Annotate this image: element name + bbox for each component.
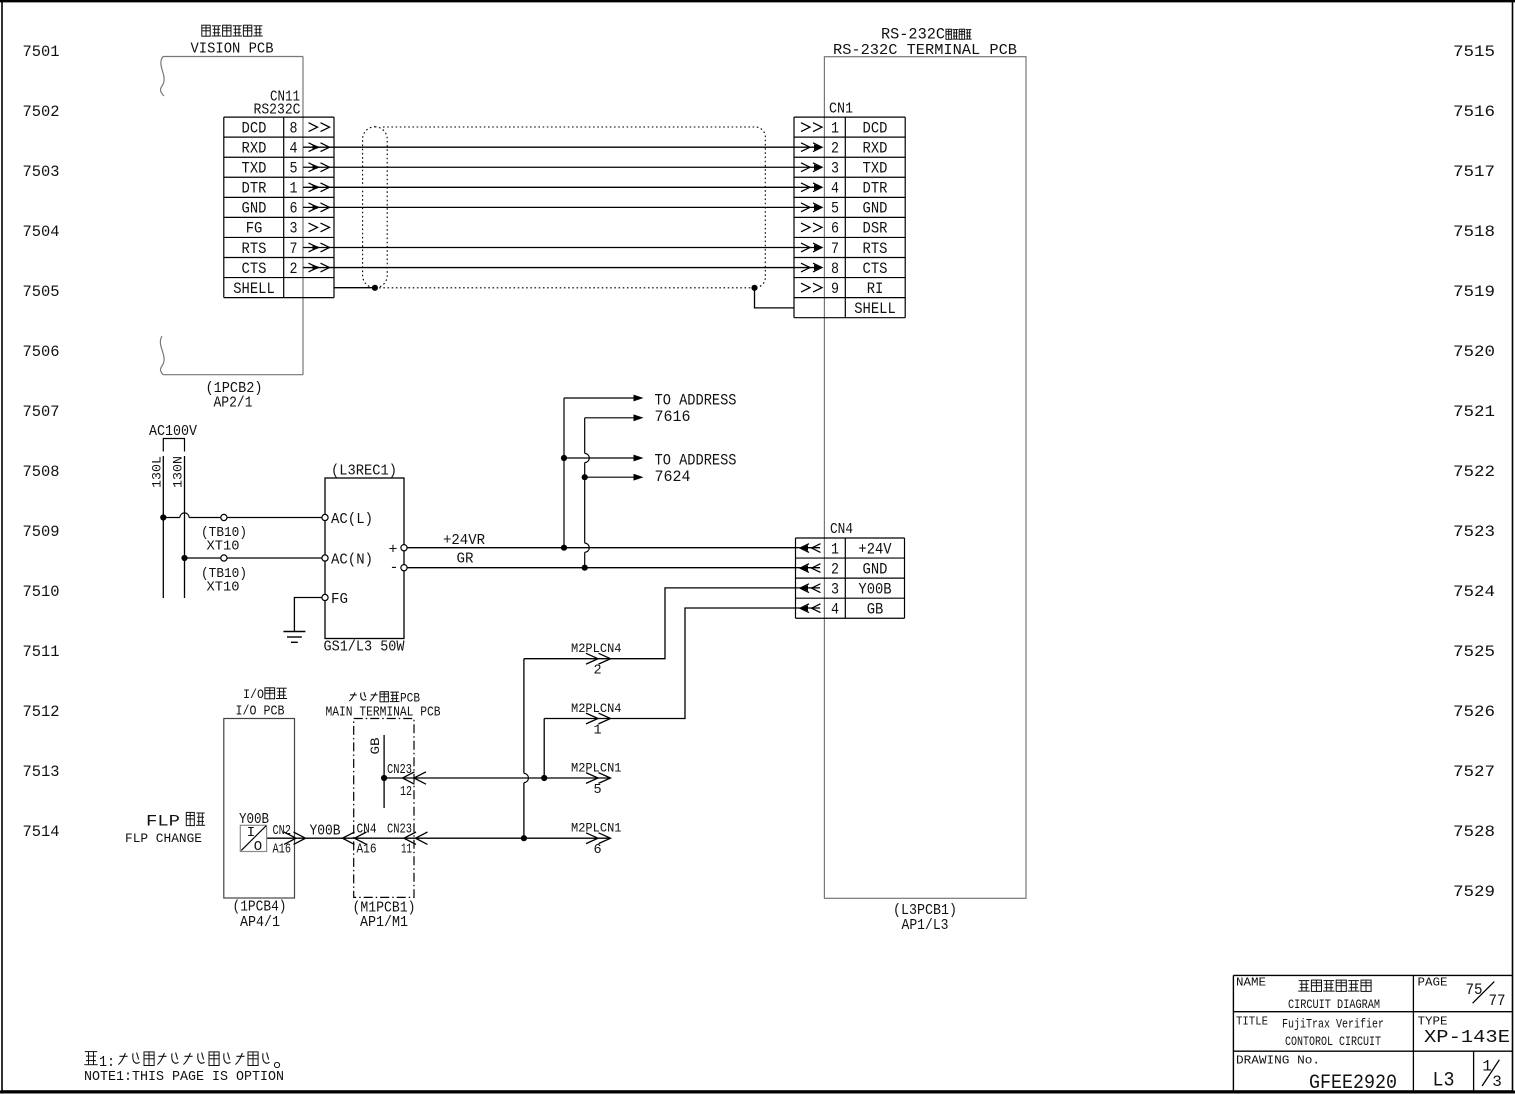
svg-text:M2PLCN1: M2PLCN1 — [571, 822, 622, 836]
svg-text:CIRCUIT DIAGRAM: CIRCUIT DIAGRAM — [1288, 997, 1380, 1012]
svg-text:RXD: RXD — [863, 139, 888, 157]
wire CN4 pin3 Y00B down-left — [524, 588, 820, 659]
svg-text:8: 8 — [290, 119, 298, 137]
wire CN4 pin4 GB down-left — [544, 608, 820, 719]
chevrons CN4-A16 entry — [343, 832, 367, 844]
label TO ADDRESS 7624 — [655, 452, 737, 487]
svg-text:7529: 7529 — [1453, 883, 1495, 901]
svg-text:AP4/1: AP4/1 — [240, 914, 280, 931]
svg-text:RTS: RTS — [863, 240, 888, 258]
svg-text:DCD: DCD — [863, 119, 888, 137]
svg-text:2: 2 — [831, 560, 839, 578]
svg-text:130N: 130N — [171, 456, 186, 488]
svg-text:7624: 7624 — [655, 468, 691, 486]
svg-text:GND: GND — [863, 560, 888, 578]
junction GB stub to CN23-12 wire — [381, 775, 387, 781]
connector CN4 table grid — [796, 538, 905, 618]
board VISION PCB (1PCB2) outline — [163, 57, 303, 375]
svg-text:NOTE1:THIS PAGE IS OPTION: NOTE1:THIS PAGE IS OPTION — [84, 1069, 284, 1085]
wire 130L vertical — [162, 456, 164, 598]
junction shield right — [751, 285, 757, 291]
svg-text:PCB: PCB — [400, 691, 420, 706]
wire 130N vertical — [184, 456, 186, 598]
svg-text:AP1/L3: AP1/L3 — [902, 917, 949, 934]
label FLP CHANGE (Japanese+English) — [125, 812, 205, 846]
svg-text:7523: 7523 — [1453, 523, 1495, 541]
svg-text:TXD: TXD — [242, 160, 267, 178]
svg-text:GB: GB — [368, 737, 383, 754]
svg-text:Y00B: Y00B — [858, 580, 891, 598]
connector CN11 RS232C label — [254, 89, 301, 119]
svg-text:XT10: XT10 — [207, 580, 240, 596]
junction GR tap at 7624 branch — [582, 474, 588, 480]
svg-text:1: 1 — [290, 180, 298, 198]
svg-text:7507: 7507 — [23, 403, 60, 421]
svg-text:CN4: CN4 — [830, 521, 853, 538]
svg-text:A16: A16 — [357, 843, 377, 858]
svg-text:FG: FG — [246, 220, 263, 238]
board I/O PCB (1PCB4) outline — [224, 719, 295, 899]
label TO ADDRESS 7616 — [655, 392, 737, 427]
svg-text:DTR: DTR — [242, 180, 267, 198]
svg-text:3: 3 — [290, 220, 298, 238]
label CN4 A16 at MAIN left edge — [357, 823, 377, 858]
left margin address numbers 7501-7514 — [23, 43, 60, 841]
svg-text:AC(L): AC(L) — [331, 512, 373, 528]
svg-text:TITLE: TITLE — [1236, 1016, 1268, 1029]
svg-text:7515: 7515 — [1453, 43, 1495, 61]
svg-text:DSR: DSR — [863, 220, 888, 238]
svg-text:Y00B: Y00B — [310, 824, 341, 840]
svg-text:5: 5 — [593, 783, 601, 798]
wire GR tap vertical (x=584.7) with hops — [585, 418, 590, 568]
svg-text:11: 11 — [401, 843, 412, 858]
svg-text:7520: 7520 — [1453, 343, 1495, 361]
svg-text:CTS: CTS — [242, 260, 267, 278]
junction 130L to AC(L) — [160, 514, 166, 520]
cable shield boundary dotted lines — [375, 127, 765, 288]
svg-text:7: 7 — [290, 240, 298, 258]
svg-text:7516: 7516 — [1453, 103, 1495, 121]
svg-text:DCD: DCD — [242, 119, 267, 137]
wire GR from GS1 to CN4 pin2 — [407, 567, 820, 569]
title block TITLE cell — [1236, 1016, 1384, 1050]
svg-text:SHELL: SHELL — [854, 300, 896, 318]
svg-text:7519: 7519 — [1453, 283, 1495, 301]
wire vertical branch B (x=544.2) — [543, 719, 545, 779]
svg-text:AP2/1: AP2/1 — [214, 395, 253, 412]
connector CN11 table grid — [224, 117, 334, 298]
note1 Japanese text — [84, 1052, 279, 1071]
label CN23 11 at MAIN right edge — [387, 823, 412, 858]
svg-text:1: 1 — [831, 119, 839, 137]
svg-text:7514: 7514 — [23, 823, 60, 841]
svg-text:+: + — [388, 542, 397, 559]
label (TB10) XT10 lower — [201, 566, 247, 596]
wire AC(N) — [185, 557, 326, 559]
svg-text:130L: 130L — [150, 456, 165, 488]
svg-text:XP-143E: XP-143E — [1424, 1028, 1510, 1048]
svg-text:TXD: TXD — [863, 160, 888, 178]
svg-text:O: O — [254, 839, 262, 855]
wire +24VR tap vertical (x=564) — [563, 398, 565, 548]
power supply GS1 (L3REC1) box — [325, 478, 404, 639]
svg-text:VISION PCB: VISION PCB — [191, 42, 274, 58]
svg-text:L3: L3 — [1433, 1070, 1455, 1093]
svg-text:2: 2 — [831, 139, 839, 157]
label VISION PCB (Japanese+English) — [191, 25, 274, 57]
junction +24VR tap at 7624 branch — [561, 455, 567, 461]
junction +24VR tap lower — [561, 545, 567, 551]
svg-text:(1PCB4): (1PCB4) — [233, 899, 287, 916]
svg-text:AP1/M1: AP1/M1 — [360, 914, 408, 931]
svg-text:FujiTrax Verifier: FujiTrax Verifier — [1282, 1018, 1384, 1032]
svg-text:AC100V: AC100V — [149, 423, 197, 440]
svg-text:6: 6 — [831, 220, 839, 238]
break squiggle bottom of VISION PCB — [160, 336, 164, 375]
svg-text:RTS: RTS — [242, 240, 267, 258]
svg-text:GS1/L3 50W: GS1/L3 50W — [324, 639, 405, 656]
svg-text:7510: 7510 — [23, 583, 60, 601]
svg-text:9: 9 — [831, 280, 839, 298]
svg-text:+24VR: +24VR — [443, 532, 485, 549]
terminal - output — [389, 560, 398, 577]
svg-text:RXD: RXD — [242, 139, 267, 157]
wire FG to ground — [294, 598, 322, 632]
svg-text:2: 2 — [290, 260, 298, 278]
chevrons exit I/O PCB — [284, 832, 306, 844]
svg-text:7502: 7502 — [23, 103, 60, 121]
cable shield ellipse (dashed) — [363, 127, 388, 288]
svg-text:4: 4 — [290, 139, 298, 157]
junction branch A to M2PLCN1-6 wire — [521, 835, 527, 841]
ground symbol — [283, 632, 305, 643]
arrow to address 7616 line2 — [585, 414, 644, 421]
terminal FG on GS1 — [322, 594, 328, 600]
title block TYPE cell — [1418, 1016, 1511, 1049]
title block PAGE cell — [1418, 977, 1506, 1011]
svg-text:7504: 7504 — [23, 223, 60, 241]
svg-text:DTR: DTR — [863, 180, 888, 198]
svg-text:6: 6 — [593, 843, 601, 858]
label M2PLCN4 2 — [571, 642, 622, 679]
svg-text:CONTOROL CIRCUIT: CONTOROL CIRCUIT — [1285, 1035, 1381, 1049]
svg-text:TYPE: TYPE — [1418, 1016, 1448, 1029]
svg-text:SHELL: SHELL — [233, 280, 275, 298]
connector CN4 pin names and numbers — [831, 540, 892, 618]
svg-text:4: 4 — [831, 180, 839, 198]
label M2PLCN4 1 — [571, 702, 622, 739]
arrow to address 7616 line1 — [564, 395, 644, 402]
svg-text:XT10: XT10 — [207, 539, 240, 555]
svg-text:NAME: NAME — [1236, 977, 1266, 990]
switch FLP Y00B box — [240, 825, 266, 855]
svg-text:RS-232C TERMINAL PCB: RS-232C TERMINAL PCB — [833, 42, 1017, 59]
svg-text:GND: GND — [242, 200, 267, 218]
svg-text:PAGE: PAGE — [1418, 977, 1448, 990]
svg-text:8: 8 — [831, 260, 839, 278]
junction 130N to AC(N) — [181, 555, 187, 561]
svg-text:7526: 7526 — [1453, 703, 1495, 721]
connector CN1 pin names and numbers — [831, 119, 896, 318]
label (M1PCB1) AP1/M1 below board — [353, 900, 416, 932]
junction branch B to M2PLCN1-5 wire — [541, 775, 547, 781]
connector CN4 input chevrons — [800, 544, 821, 613]
label M2PLCN1 6 — [571, 822, 622, 859]
svg-text:RS-232C: RS-232C — [881, 26, 945, 44]
svg-text:(L3REC1): (L3REC1) — [331, 463, 397, 480]
svg-text:TO ADDRESS: TO ADDRESS — [655, 452, 737, 470]
wire M2PLCN4-2 arrow — [586, 653, 611, 664]
svg-text:AC(N): AC(N) — [331, 553, 373, 569]
svg-text:MAIN TERMINAL PCB: MAIN TERMINAL PCB — [326, 705, 441, 721]
wire shield to CN1 SHELL — [755, 288, 795, 308]
svg-text:6: 6 — [290, 200, 298, 218]
terminal XT10 (TB10) upper — [221, 514, 227, 520]
svg-text:7509: 7509 — [23, 523, 60, 541]
svg-text:7512: 7512 — [23, 703, 60, 721]
svg-text:7521: 7521 — [1453, 403, 1495, 421]
svg-text:3: 3 — [831, 580, 839, 598]
terminal AC(L) on GS1 — [322, 514, 328, 520]
svg-text:FLP: FLP — [146, 813, 180, 831]
svg-text:GR: GR — [457, 551, 474, 568]
svg-text:CN2: CN2 — [273, 824, 292, 839]
svg-text:Y00B: Y00B — [239, 812, 269, 828]
svg-text:GFEE2920: GFEE2920 — [1309, 1072, 1397, 1094]
svg-text:I/O: I/O — [243, 687, 264, 702]
wire M2PLCN1-5 horizontal — [416, 773, 611, 784]
label CN23 12 — [387, 763, 412, 800]
svg-text:M2PLCN1: M2PLCN1 — [571, 762, 622, 776]
svg-text:7505: 7505 — [23, 283, 60, 301]
svg-text:I/O PCB: I/O PCB — [236, 704, 285, 720]
svg-text:7517: 7517 — [1453, 163, 1495, 181]
title block sheet 1/3 — [1482, 1058, 1502, 1092]
label RS-232C TERMINAL PCB (Japanese+English) — [833, 26, 1017, 60]
connector CN1 table grid — [794, 117, 905, 318]
svg-text:5: 5 — [831, 200, 839, 218]
right margin address numbers 7515-7529 — [1453, 43, 1495, 901]
svg-text:GB: GB — [867, 601, 884, 619]
wire M2PLCN4-1 arrow — [586, 713, 611, 724]
board RS-232C TERMINAL PCB (L3PCB1) outline — [824, 57, 1026, 899]
title block DRAWING No cell — [1236, 1055, 1397, 1094]
svg-text:M2PLCN4: M2PLCN4 — [571, 702, 622, 716]
svg-text:7503: 7503 — [23, 163, 60, 181]
svg-text:4: 4 — [831, 601, 839, 619]
connector CN11 output chevrons — [309, 123, 330, 272]
svg-text:3: 3 — [1492, 1073, 1502, 1091]
svg-text:7513: 7513 — [23, 763, 60, 781]
terminal XT10 (TB10) lower — [221, 555, 227, 561]
svg-text:1: 1 — [593, 724, 601, 739]
AC100V source bracket — [163, 439, 184, 452]
svg-text:DRAWING No.: DRAWING No. — [1236, 1055, 1320, 1068]
wires CN11 to CN1 (RXD TXD DTR GND RTS CTS) — [303, 144, 822, 270]
wire vertical branch A (x=523.9) with hop — [524, 659, 529, 839]
svg-text:7501: 7501 — [23, 43, 60, 61]
svg-text:A16: A16 — [273, 843, 292, 858]
svg-text:7527: 7527 — [1453, 763, 1495, 781]
chevrons CN23 pin12 — [403, 772, 427, 784]
wire AC(L) with hop over 130N — [163, 513, 325, 518]
wire CN23-12 to branch — [384, 777, 416, 779]
svg-text:7524: 7524 — [1453, 583, 1495, 601]
wire +24VR from GS1 to CN4 pin1 — [407, 547, 820, 549]
svg-text:CN1: CN1 — [829, 101, 853, 118]
label CN2 A16 at I/O PCB edge — [273, 824, 292, 858]
svg-text:FG: FG — [331, 592, 348, 608]
label I/O PCB (Japanese+English) — [236, 687, 288, 720]
svg-text:RS232C: RS232C — [254, 102, 301, 119]
svg-text:7508: 7508 — [23, 463, 60, 481]
arrow to address 7624 line2 — [585, 474, 644, 481]
svg-text:7522: 7522 — [1453, 463, 1495, 481]
svg-text:CN23: CN23 — [387, 823, 412, 838]
break squiggle top of VISION PCB — [161, 57, 165, 97]
svg-text:1: 1 — [831, 540, 839, 558]
svg-text:7511: 7511 — [23, 643, 60, 661]
chevrons CN23 pin11 — [404, 832, 428, 844]
svg-text:RI: RI — [867, 280, 884, 298]
svg-text:5: 5 — [290, 160, 298, 178]
svg-text:2: 2 — [593, 664, 601, 679]
board MAIN TERMINAL PCB (M1PCB1) outline dash-dot — [354, 719, 414, 898]
junction GR tap lower — [582, 565, 588, 571]
title block grid — [1233, 975, 1512, 1092]
title block NAME cell — [1236, 977, 1380, 1013]
svg-text:7616: 7616 — [655, 408, 691, 426]
svg-text:77: 77 — [1489, 992, 1506, 1010]
arrow to address 7624 line1 — [564, 455, 644, 462]
svg-text:7506: 7506 — [23, 343, 60, 361]
label (L3PCB1) AP1/L3 below board — [893, 902, 957, 934]
svg-text:7: 7 — [831, 240, 839, 258]
label M2PLCN1 5 — [571, 762, 622, 799]
svg-text:FLP CHANGE: FLP CHANGE — [125, 831, 202, 846]
svg-text:12: 12 — [400, 785, 412, 800]
connector CN11 pin names and numbers — [233, 119, 297, 297]
svg-text:GND: GND — [863, 200, 888, 218]
connector CN1 input chevrons — [801, 123, 822, 292]
svg-text:M2PLCN4: M2PLCN4 — [571, 642, 622, 656]
svg-text:7528: 7528 — [1453, 823, 1495, 841]
svg-text:TO ADDRESS: TO ADDRESS — [655, 392, 737, 410]
wire M2PLCN1-6 horizontal — [267, 833, 611, 844]
svg-text:3: 3 — [831, 160, 839, 178]
label (1PCB2) AP2/1 below VISION PCB — [206, 380, 263, 412]
terminal AC(N) on GS1 — [322, 555, 328, 561]
label (1PCB4) AP4/1 below board — [233, 899, 287, 932]
junction shield left — [372, 285, 378, 291]
label (TB10) XT10 upper — [201, 525, 247, 555]
svg-text:7525: 7525 — [1453, 643, 1495, 661]
svg-text:+24V: +24V — [858, 540, 892, 558]
svg-text:7518: 7518 — [1453, 223, 1495, 241]
label MAIN TERMINAL PCB (Japanese+English) — [326, 691, 441, 721]
wire GB stub vertical — [383, 735, 385, 808]
terminal + output — [388, 542, 397, 559]
svg-text:CTS: CTS — [863, 260, 888, 278]
wire SHELL left to shield — [334, 287, 375, 289]
svg-text:-: - — [389, 560, 398, 577]
